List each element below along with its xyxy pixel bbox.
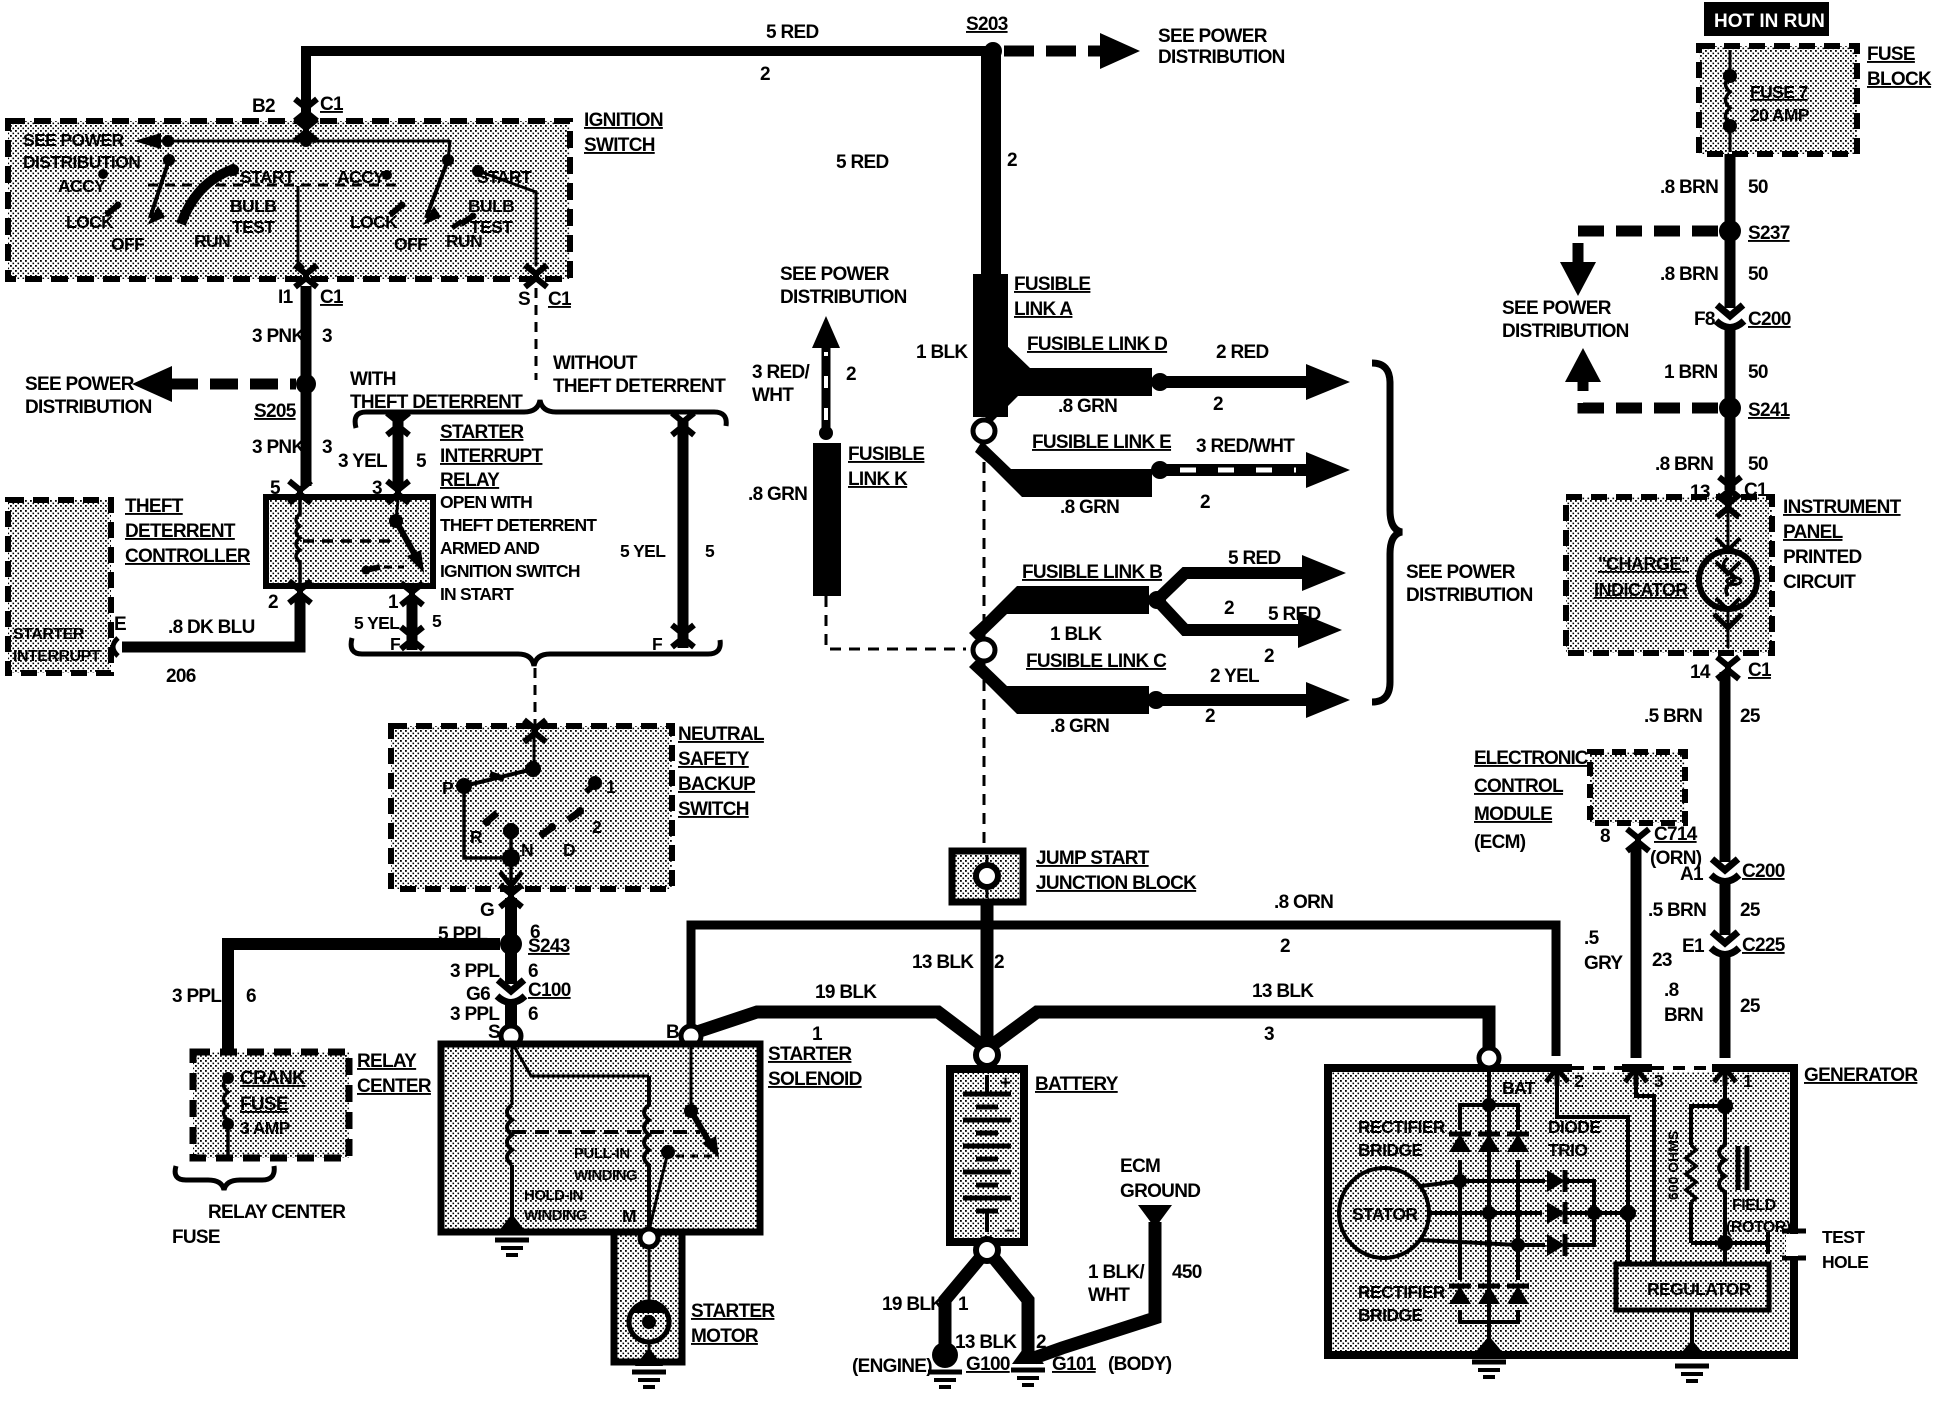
svg-text:25: 25 bbox=[1740, 706, 1761, 727]
diode rectifier bottom left bbox=[1449, 1286, 1471, 1304]
svg-text:(BODY): (BODY) bbox=[1108, 1354, 1172, 1375]
wire: 3 PPL branch to crank fuse bbox=[228, 944, 500, 1052]
svg-text:C225: C225 bbox=[1742, 935, 1786, 956]
svg-text:RECTIFIER: RECTIFIER bbox=[1358, 1117, 1446, 1137]
wire: dashed power-distribution arrow left of S205 bbox=[170, 379, 296, 390]
connector G6 / C100 bbox=[497, 980, 525, 1003]
wire: 2 RED arrow to power distribution bbox=[1160, 376, 1310, 388]
svg-text:SWITCH: SWITCH bbox=[584, 135, 655, 156]
generator box bbox=[1328, 1068, 1794, 1355]
wire: 5 RED feed from ignition switch B2 to S203 bbox=[306, 51, 995, 121]
svg-text:FUSE: FUSE bbox=[1867, 44, 1915, 65]
relay mech dashed link bbox=[303, 539, 390, 543]
svg-text:THEFT: THEFT bbox=[125, 496, 184, 517]
diode rectifier bottom mid bbox=[1478, 1286, 1500, 1304]
svg-text:BULB: BULB bbox=[230, 196, 276, 216]
svg-text:THEFT DETERRENT: THEFT DETERRENT bbox=[440, 515, 597, 535]
solenoid ground bbox=[498, 1214, 526, 1232]
svg-text:.8 BRN: .8 BRN bbox=[1655, 454, 1713, 475]
svg-text:RELAY: RELAY bbox=[440, 470, 500, 491]
diode trio output rail bbox=[1565, 1181, 1594, 1245]
svg-text:FUSE: FUSE bbox=[172, 1227, 220, 1248]
svg-text:DIODE: DIODE bbox=[1548, 1117, 1600, 1137]
svg-text:C200: C200 bbox=[1742, 861, 1785, 882]
svg-text:.8 BRN: .8 BRN bbox=[1660, 264, 1718, 285]
svg-text:BRN: BRN bbox=[1664, 1005, 1703, 1026]
fusible link K bbox=[813, 443, 841, 596]
svg-text:23: 23 bbox=[1652, 950, 1672, 971]
svg-text:SEE POWER: SEE POWER bbox=[23, 130, 125, 150]
starter motor ground bbox=[648, 1342, 651, 1352]
svg-text:CIRCUIT: CIRCUIT bbox=[1783, 572, 1856, 593]
connector E1 / C225 bbox=[1711, 932, 1739, 955]
svg-text:MODULE: MODULE bbox=[1474, 804, 1552, 825]
wire: 13 BLK battery negative to G101 bbox=[993, 1257, 1028, 1352]
svg-text:CRANK: CRANK bbox=[240, 1068, 306, 1089]
svg-text:2: 2 bbox=[1264, 646, 1274, 667]
brace under crank fuse bbox=[175, 1166, 274, 1190]
svg-text:1: 1 bbox=[1743, 1071, 1753, 1091]
svg-text:FIELD: FIELD bbox=[1732, 1197, 1776, 1214]
wire: internal bus to SEE POWER DISTRIBUTION (left arrow) bbox=[140, 140, 450, 143]
node S203 (splice) bbox=[984, 42, 1002, 60]
svg-text:3 AMP: 3 AMP bbox=[240, 1118, 291, 1138]
svg-text:G6: G6 bbox=[466, 984, 490, 1005]
svg-text:WHT: WHT bbox=[1088, 1285, 1130, 1306]
connector A1 / C200 bbox=[1711, 859, 1739, 882]
svg-text:3: 3 bbox=[1654, 1071, 1664, 1091]
svg-text:6: 6 bbox=[528, 1004, 538, 1025]
wire: 5 YEL relay pin 1 to merge brace bbox=[407, 600, 418, 650]
svg-text:LINK A: LINK A bbox=[1014, 299, 1073, 320]
ignition switch pole 1 pivot bbox=[162, 135, 174, 147]
svg-text:CONTROLLER: CONTROLLER bbox=[125, 546, 251, 567]
svg-text:TRIO: TRIO bbox=[1548, 1140, 1587, 1160]
wire: 3 YEL to starter interrupt relay coil bbox=[393, 412, 404, 488]
svg-text:BRIDGE: BRIDGE bbox=[1358, 1140, 1422, 1160]
wire: 5 YEL without-theft-deterrent branch bbox=[678, 420, 689, 648]
starter motor bbox=[648, 1247, 651, 1302]
instrument panel printed circuit box bbox=[1566, 497, 1772, 653]
svg-text:DISTRIBUTION: DISTRIBUTION bbox=[25, 397, 152, 418]
diode rectifier top left bbox=[1449, 1134, 1471, 1152]
ground G101 (body) bbox=[1012, 1342, 1044, 1364]
svg-text:.8 GRN: .8 GRN bbox=[1050, 716, 1109, 737]
svg-text:1 BLK: 1 BLK bbox=[1050, 624, 1102, 645]
svg-text:OFF: OFF bbox=[111, 234, 145, 254]
svg-text:P: P bbox=[442, 778, 454, 798]
svg-text:DISTRIBUTION: DISTRIBUTION bbox=[1406, 585, 1533, 606]
battery bbox=[950, 1069, 1024, 1242]
starter motor housing bbox=[614, 1232, 682, 1362]
svg-text:.5 BRN: .5 BRN bbox=[1648, 900, 1706, 921]
wire: 19 BLK solenoid B to battery positive bbox=[694, 1012, 983, 1046]
svg-text:WINDING: WINDING bbox=[524, 1207, 587, 1224]
svg-text:(ROTOR): (ROTOR) bbox=[1726, 1219, 1791, 1236]
wire: 3 RED/WHT arrow to power distribution bbox=[1160, 464, 1310, 476]
svg-text:206: 206 bbox=[166, 666, 196, 687]
svg-text:25: 25 bbox=[1740, 900, 1761, 921]
svg-text:+: + bbox=[1000, 1073, 1011, 1094]
svg-text:F: F bbox=[652, 634, 663, 654]
pull-in winding bbox=[644, 1076, 649, 1228]
switch blade to P contact bbox=[464, 769, 533, 786]
svg-text:C200: C200 bbox=[1748, 309, 1791, 330]
svg-text:1: 1 bbox=[606, 777, 616, 797]
pin C / 3 bbox=[1625, 1068, 1647, 1086]
test hole notch bbox=[1782, 1229, 1806, 1234]
svg-text:C1: C1 bbox=[320, 94, 344, 115]
svg-text:C1: C1 bbox=[1748, 660, 1772, 681]
svg-text:TEST: TEST bbox=[470, 217, 513, 237]
svg-text:5 RED: 5 RED bbox=[766, 22, 818, 43]
svg-text:BACKUP: BACKUP bbox=[678, 774, 756, 795]
svg-text:13 BLK: 13 BLK bbox=[955, 1332, 1017, 1353]
wire: contact to M terminal bbox=[650, 1152, 668, 1226]
wire: field top rail to 600 ohm resistor bbox=[1691, 1106, 1725, 1145]
svg-text:600 OHMS: 600 OHMS bbox=[1665, 1131, 1681, 1200]
svg-text:2: 2 bbox=[268, 592, 278, 613]
svg-text:ECM: ECM bbox=[1120, 1156, 1160, 1177]
svg-text:5 RED: 5 RED bbox=[1268, 604, 1320, 625]
brace merging F branches to neutral safety switch bbox=[351, 638, 720, 666]
ignition switch box bbox=[8, 121, 570, 279]
brace over theft-deterrent branch split bbox=[355, 400, 726, 428]
svg-text:2: 2 bbox=[760, 64, 770, 85]
hold-in winding bbox=[507, 1105, 512, 1165]
terminal S / C1 bbox=[525, 265, 547, 287]
svg-text:1 BLK/: 1 BLK/ bbox=[1088, 1262, 1145, 1283]
svg-text:RUN: RUN bbox=[194, 231, 230, 251]
svg-text:1 BRN: 1 BRN bbox=[1664, 362, 1718, 383]
svg-text:FUSIBLE: FUSIBLE bbox=[848, 444, 924, 465]
pin G bbox=[500, 885, 522, 907]
svg-text:ACCY: ACCY bbox=[58, 176, 106, 196]
connector F8 / C200 bbox=[1716, 305, 1744, 328]
svg-text:2: 2 bbox=[1007, 150, 1017, 171]
pin B / 2 bbox=[1546, 1068, 1568, 1086]
svg-text:FUSIBLE: FUSIBLE bbox=[1014, 274, 1090, 295]
svg-text:3: 3 bbox=[322, 326, 332, 347]
wire: 5 RED S203 down to fusible link A bbox=[981, 51, 1001, 280]
electronic control module box bbox=[1590, 752, 1685, 823]
svg-text:"CHARGE": "CHARGE" bbox=[1598, 554, 1689, 574]
svg-text:C1: C1 bbox=[320, 287, 344, 308]
wire: pin B (2) to diode trio output bbox=[1557, 1086, 1628, 1264]
diode rectifier top right bbox=[1507, 1134, 1529, 1152]
svg-text:1: 1 bbox=[958, 1294, 969, 1315]
svg-text:1: 1 bbox=[812, 1024, 823, 1045]
svg-text:RECTIFIER: RECTIFIER bbox=[1358, 1282, 1446, 1302]
wire: fusible link E branch bbox=[975, 441, 1152, 497]
wire: START pole2 to S terminal bbox=[478, 171, 536, 266]
svg-text:B: B bbox=[666, 1022, 679, 1043]
svg-text:E: E bbox=[114, 614, 126, 635]
svg-text:FUSIBLE LINK E: FUSIBLE LINK E bbox=[1032, 432, 1171, 453]
svg-text:FUSE 7: FUSE 7 bbox=[1750, 82, 1808, 102]
battery cells bbox=[985, 1075, 989, 1093]
svg-text:JUMP START: JUMP START bbox=[1036, 848, 1150, 869]
generator internal ground (regulator) bbox=[1677, 1340, 1707, 1358]
svg-text:5: 5 bbox=[270, 478, 281, 499]
battery negative node bbox=[976, 1239, 998, 1261]
wire: P to common N output bbox=[464, 786, 511, 858]
svg-text:STARTER: STARTER bbox=[768, 1044, 852, 1065]
wire: 2 YEL arrow to power distribution bbox=[1156, 694, 1310, 706]
svg-text:8: 8 bbox=[1600, 826, 1610, 847]
svg-text:STATOR: STATOR bbox=[1352, 1204, 1418, 1224]
wire: pin C (3) to regulator bbox=[1636, 1086, 1654, 1264]
svg-text:SEE POWER: SEE POWER bbox=[1406, 562, 1516, 583]
stator bbox=[1339, 1168, 1429, 1258]
neutral safety backup switch box bbox=[391, 726, 672, 889]
svg-text:PULL-IN: PULL-IN bbox=[574, 1145, 630, 1162]
wire: .8 BRN S237 to C200 bbox=[1725, 236, 1736, 308]
dashed wiper line pole1 bbox=[148, 184, 400, 187]
node S243 (splice) bbox=[500, 933, 522, 955]
svg-text:2: 2 bbox=[1224, 598, 1234, 619]
svg-text:C714: C714 bbox=[1654, 824, 1698, 845]
wire: .8 DK BLU circuit 206 to relay pin 2 bbox=[122, 598, 300, 647]
svg-text:3: 3 bbox=[322, 437, 332, 458]
svg-text:DISTRIBUTION: DISTRIBUTION bbox=[23, 152, 140, 172]
svg-text:SWITCH: SWITCH bbox=[678, 799, 749, 820]
svg-text:WINDING: WINDING bbox=[574, 1167, 637, 1184]
svg-text:S237: S237 bbox=[1748, 223, 1790, 244]
svg-text:1: 1 bbox=[388, 592, 399, 613]
wire: fusible link D branch bbox=[973, 340, 1152, 423]
svg-text:NEUTRAL: NEUTRAL bbox=[678, 724, 765, 745]
diode trio 2 bbox=[1547, 1202, 1565, 1224]
generator internal ground (rectifier) bbox=[1474, 1336, 1504, 1354]
svg-text:450: 450 bbox=[1172, 1262, 1202, 1283]
svg-text:S203: S203 bbox=[966, 14, 1008, 35]
svg-text:RELAY CENTER: RELAY CENTER bbox=[208, 1202, 346, 1223]
svg-text:DISTRIBUTION: DISTRIBUTION bbox=[780, 287, 907, 308]
svg-text:CONTROL: CONTROL bbox=[1474, 776, 1564, 797]
svg-text:BRIDGE: BRIDGE bbox=[1358, 1305, 1422, 1325]
svg-text:S241: S241 bbox=[1748, 400, 1791, 421]
svg-text:FUSIBLE LINK D: FUSIBLE LINK D bbox=[1027, 334, 1167, 355]
terminal I1 / C1 bbox=[295, 265, 317, 287]
svg-text:.8: .8 bbox=[1664, 980, 1679, 1001]
svg-text:BULB: BULB bbox=[468, 196, 514, 216]
svg-text:SOLENOID: SOLENOID bbox=[768, 1069, 862, 1090]
svg-text:3 PPL: 3 PPL bbox=[450, 961, 500, 982]
svg-text:G100: G100 bbox=[966, 1354, 1010, 1375]
field (rotor) coil bbox=[1719, 1145, 1725, 1243]
node S241 (splice) bbox=[1719, 397, 1741, 419]
ground G100 (engine) bbox=[932, 1342, 958, 1368]
svg-text:HOT IN RUN: HOT IN RUN bbox=[1714, 11, 1825, 32]
svg-text:.8 GRN: .8 GRN bbox=[1060, 497, 1119, 518]
svg-text:DISTRIBUTION: DISTRIBUTION bbox=[1158, 47, 1285, 68]
wire: BAT bus vertical bbox=[1487, 1066, 1491, 1345]
svg-text:G101: G101 bbox=[1052, 1354, 1097, 1375]
wire: dashed link to neutral safety backup switch bbox=[534, 668, 537, 728]
svg-text:HOLE: HOLE bbox=[1822, 1252, 1868, 1272]
crank fuse box (relay center) bbox=[193, 1052, 349, 1158]
svg-text:2 RED: 2 RED bbox=[1216, 342, 1268, 363]
starter solenoid box bbox=[441, 1044, 760, 1232]
svg-text:SEE POWER: SEE POWER bbox=[1502, 298, 1612, 319]
regulator box bbox=[1616, 1264, 1769, 1310]
starter interrupt relay box bbox=[266, 497, 433, 586]
svg-text:(ECM): (ECM) bbox=[1474, 832, 1526, 853]
wire: 3 RED/WHT arrow up from link K bbox=[819, 426, 833, 440]
wire: 13 BLK battery positive to generator BAT bbox=[991, 1012, 1489, 1048]
svg-text:STARTER: STARTER bbox=[440, 422, 524, 443]
ignition switch pole 2 pivot bbox=[442, 154, 454, 166]
svg-text:INSTRUMENT: INSTRUMENT bbox=[1783, 497, 1902, 518]
wire: 1 BRN C200 to S241 bbox=[1725, 328, 1736, 404]
svg-text:INTERRUPT: INTERRUPT bbox=[13, 648, 101, 665]
ignition switch internal feed node bbox=[295, 119, 317, 141]
fuse block box bbox=[1699, 46, 1857, 154]
wire: 3 PPL S243 to C100 bbox=[505, 944, 517, 984]
svg-text:3: 3 bbox=[372, 478, 382, 499]
svg-text:13 BLK: 13 BLK bbox=[1252, 981, 1314, 1002]
svg-text:GRY: GRY bbox=[1584, 953, 1623, 974]
svg-text:3 PNK: 3 PNK bbox=[252, 437, 305, 458]
crank fuse bbox=[222, 1072, 234, 1084]
svg-text:3 PNK: 3 PNK bbox=[252, 326, 305, 347]
svg-text:M: M bbox=[622, 1206, 636, 1226]
svg-text:OFF: OFF bbox=[394, 234, 428, 254]
svg-text:SAFETY: SAFETY bbox=[678, 749, 750, 770]
svg-text:HOLD-IN: HOLD-IN bbox=[524, 1187, 583, 1204]
svg-text:E1: E1 bbox=[1682, 936, 1705, 957]
entry into neutral safety switch bbox=[524, 720, 546, 742]
svg-text:13 BLK: 13 BLK bbox=[912, 952, 974, 973]
svg-text:CENTER: CENTER bbox=[357, 1076, 432, 1097]
svg-text:.5 BRN: .5 BRN bbox=[1644, 706, 1702, 727]
svg-text:14: 14 bbox=[1690, 662, 1711, 683]
wire: 19 BLK battery negative to G100 bbox=[945, 1257, 981, 1352]
svg-text:WITH: WITH bbox=[350, 369, 396, 390]
svg-text:A1: A1 bbox=[1680, 864, 1704, 885]
svg-text:R: R bbox=[470, 827, 483, 847]
switch blade pole 2 to OFF bbox=[426, 160, 448, 218]
wire: regulator to ground bbox=[1690, 1310, 1694, 1348]
svg-text:ELECTRONIC: ELECTRONIC bbox=[1474, 748, 1589, 769]
svg-text:3 PPL: 3 PPL bbox=[172, 986, 222, 1007]
svg-text:25: 25 bbox=[1740, 996, 1761, 1017]
HOT IN RUN banner bbox=[1704, 2, 1829, 36]
svg-text:50: 50 bbox=[1748, 264, 1768, 285]
svg-text:2 YEL: 2 YEL bbox=[1210, 666, 1260, 687]
svg-text:3 RED/: 3 RED/ bbox=[752, 362, 810, 383]
svg-text:DISTRIBUTION: DISTRIBUTION bbox=[1502, 321, 1629, 342]
wire: .8 BRN C225 to generator A bbox=[1720, 955, 1731, 1058]
svg-text:BAT: BAT bbox=[1502, 1078, 1536, 1098]
svg-text:FUSIBLE LINK C: FUSIBLE LINK C bbox=[1026, 651, 1167, 672]
diode rectifier top mid bbox=[1478, 1134, 1500, 1152]
wire: .8 BRN S241 to instrument panel pin 13 bbox=[1725, 413, 1736, 490]
svg-text:PANEL: PANEL bbox=[1783, 522, 1844, 543]
svg-text:BLOCK: BLOCK bbox=[1867, 69, 1932, 90]
wire: dashed power distribution branch from S241 bbox=[1583, 380, 1718, 408]
svg-text:I1: I1 bbox=[278, 287, 294, 308]
node: link B connector bbox=[1148, 591, 1166, 609]
resistor 600 ohms bbox=[1686, 1145, 1696, 1202]
svg-text:BATTERY: BATTERY bbox=[1035, 1074, 1119, 1095]
svg-text:TEST: TEST bbox=[232, 217, 275, 237]
diode rectifier bottom right bbox=[1507, 1286, 1529, 1304]
wire: 5 RED upper arrow to power distribution bbox=[1157, 573, 1306, 600]
charge indicator lamp bbox=[1717, 495, 1739, 517]
wire: .8 BRN fuse block to S237 bbox=[1725, 154, 1736, 232]
battery positive node bbox=[976, 1044, 998, 1066]
svg-text:SEE POWER: SEE POWER bbox=[25, 374, 135, 395]
svg-text:6: 6 bbox=[528, 961, 538, 982]
svg-text:50: 50 bbox=[1748, 177, 1768, 198]
svg-text:S: S bbox=[518, 289, 530, 310]
wire: 5 PPL to S243 bbox=[505, 898, 517, 944]
svg-text:.8 GRN: .8 GRN bbox=[1058, 396, 1117, 417]
wire: .5 BRN C200 to C225 bbox=[1720, 882, 1731, 935]
wire: dashed from link K to fusible links B/C node bbox=[826, 596, 966, 649]
node: link D connector bbox=[1151, 373, 1169, 391]
svg-text:3 RED/WHT: 3 RED/WHT bbox=[1196, 436, 1295, 457]
node: link A to E open connector bbox=[973, 420, 995, 442]
svg-text:B2: B2 bbox=[252, 96, 275, 117]
wire: field to regulator bbox=[1723, 1243, 1727, 1264]
svg-text:IN START: IN START bbox=[440, 584, 514, 604]
wire: .5 GRY ECM to generator C bbox=[1631, 846, 1642, 1058]
svg-text:50: 50 bbox=[1748, 454, 1768, 475]
svg-text:C100: C100 bbox=[528, 980, 571, 1001]
svg-text:2: 2 bbox=[846, 364, 856, 385]
diode trio 1 bbox=[1547, 1170, 1565, 1192]
rectifier bridge rails bbox=[1460, 1105, 1518, 1130]
svg-text:LINK K: LINK K bbox=[848, 469, 908, 490]
wire: .5 BRN pin 14 to C200 bbox=[1720, 672, 1731, 862]
jump start junction block bbox=[952, 851, 1023, 902]
solenoid contact from B bbox=[690, 1046, 693, 1110]
wire: dashed S-branch from ignition S terminal bbox=[535, 288, 538, 380]
svg-text:C1: C1 bbox=[548, 289, 572, 310]
wire: dashed power-distribution arrow right of S203 bbox=[1004, 46, 1102, 57]
svg-text:2: 2 bbox=[1213, 394, 1223, 415]
svg-text:3: 3 bbox=[1264, 1024, 1274, 1045]
svg-text:–: – bbox=[1004, 1220, 1014, 1241]
svg-text:.8 ORN: .8 ORN bbox=[1274, 892, 1333, 913]
brace: fusible links to power distribution bbox=[1372, 363, 1402, 702]
wire: 5 RED lower arrow to power distribution bbox=[1157, 600, 1300, 630]
svg-text:6: 6 bbox=[246, 986, 256, 1007]
svg-text:S: S bbox=[488, 1022, 500, 1043]
svg-text:5 RED: 5 RED bbox=[1228, 548, 1280, 569]
relay coil bbox=[296, 500, 300, 584]
svg-text:1 BLK: 1 BLK bbox=[916, 342, 968, 363]
wire: S to windings bbox=[514, 1046, 649, 1076]
svg-text:WHT: WHT bbox=[752, 385, 794, 406]
fusible link A bbox=[973, 274, 1008, 417]
wire: .8 ORN solenoid B to generator B bbox=[691, 925, 1556, 1056]
svg-text:FUSE: FUSE bbox=[240, 1094, 288, 1115]
wire: 3 PPL C100 to solenoid S bbox=[505, 1002, 517, 1028]
wire: 13 BLK jump start block to battery positive bbox=[981, 902, 994, 1050]
svg-text:JUNCTION BLOCK: JUNCTION BLOCK bbox=[1036, 873, 1197, 894]
stator phase wires bbox=[1421, 1181, 1545, 1186]
svg-text:GROUND: GROUND bbox=[1120, 1181, 1200, 1202]
pin BAT bbox=[1479, 1048, 1499, 1068]
svg-text:20 AMP: 20 AMP bbox=[1750, 105, 1810, 125]
svg-text:2: 2 bbox=[1200, 492, 1210, 513]
wire: 1 BLK/WHT circuit 450 ECM ground to G101 bbox=[1034, 1222, 1155, 1358]
svg-text:TEST: TEST bbox=[1822, 1227, 1865, 1247]
